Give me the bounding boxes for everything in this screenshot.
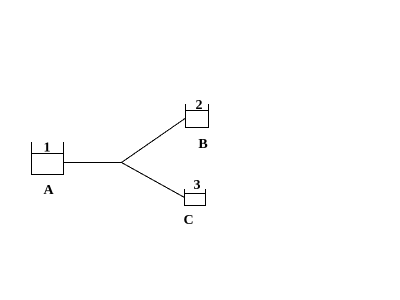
tank B (185, 104, 209, 128)
wire junction to B (122, 119, 186, 163)
wire A to junction (64, 162, 122, 163)
tank C (184, 189, 206, 206)
wire junction to C (122, 163, 185, 198)
svg-text:1: 1 (44, 141, 51, 156)
svg-text:C: C (183, 213, 193, 228)
tank A (31, 142, 64, 175)
svg-text:2: 2 (196, 98, 203, 113)
svg-text:A: A (43, 183, 54, 198)
svg-text:B: B (198, 137, 207, 152)
svg-text:3: 3 (194, 178, 201, 193)
